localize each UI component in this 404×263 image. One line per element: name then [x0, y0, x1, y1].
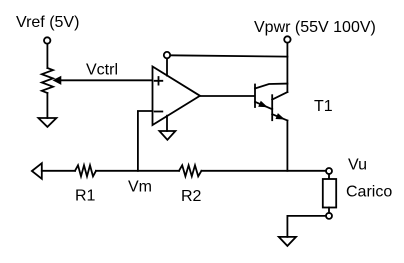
- transistor Q2 emitter arrow: [276, 113, 286, 119]
- transistor Q1 base bar: [254, 85, 256, 108]
- wire load bottom: [328, 208, 330, 213]
- potentiometer P1: [42, 68, 53, 93]
- terminal Vpwr: [284, 36, 290, 42]
- wire R2 to load terminal: [201, 170, 326, 172]
- transistor Q1 emitter arrow: [258, 101, 268, 108]
- op-amp U1: [153, 67, 201, 126]
- op-amp minus sign: [155, 111, 163, 113]
- wire T1 emitter down to output rail: [286, 121, 288, 171]
- svg-text:Vu: Vu: [348, 157, 367, 174]
- svg-text:Vm: Vm: [128, 179, 152, 196]
- wire load bottom to ground: [287, 216, 326, 237]
- op-amp plus sign: [155, 77, 163, 85]
- wire arrow to R1: [42, 170, 75, 172]
- resistor R1: [75, 165, 96, 176]
- wire op-amp supply to Vpwr rail: [170, 55, 287, 56]
- off-page arrow (left): [32, 163, 42, 179]
- svg-text:Vpwr (55V 100V): Vpwr (55V 100V): [254, 19, 376, 36]
- wire load top: [328, 174, 330, 179]
- ground (under potentiometer): [38, 118, 56, 127]
- wire R1 to R2 through node Vm: [96, 170, 179, 172]
- wiper arrow: [54, 77, 60, 83]
- op-amp negative supply stub: [166, 116, 168, 131]
- wire potentiometer to ground: [46, 93, 48, 118]
- wire op-amp output to T1 base: [200, 95, 254, 97]
- wire Vref terminal to potentiometer: [46, 44, 48, 68]
- ground (under load): [279, 237, 296, 246]
- op-amp supply pin circle: [164, 52, 170, 58]
- terminal Vu (load top): [326, 168, 332, 174]
- svg-text:Carico: Carico: [346, 184, 392, 201]
- load Carico (rectangle): [323, 179, 336, 208]
- terminal load bottom: [326, 213, 332, 219]
- svg-text:T1: T1: [314, 98, 333, 115]
- svg-text:R1: R1: [75, 188, 96, 205]
- transistor Q1 collector: [255, 84, 287, 89]
- terminal Vref: [44, 37, 50, 43]
- svg-text:Vctrl: Vctrl: [86, 62, 118, 79]
- transistor Q2 collector: [272, 92, 287, 99]
- ground (under op-amp): [159, 131, 175, 140]
- wire Vpwr down to collectors: [286, 43, 288, 92]
- svg-text:R2: R2: [181, 188, 202, 205]
- transistor Q2 emitter: [272, 114, 287, 120]
- wire feedback (op-amp - input to node Vm): [138, 111, 153, 171]
- transistor Q1 emitter: [255, 102, 272, 109]
- wire Vctrl (wiper to op-amp + input): [59, 79, 153, 81]
- svg-text:Vref (5V): Vref (5V): [16, 14, 79, 31]
- op-amp supply pin stub: [166, 58, 168, 75]
- resistor R2: [179, 165, 201, 176]
- transistor Q2 base bar: [271, 95, 273, 120]
